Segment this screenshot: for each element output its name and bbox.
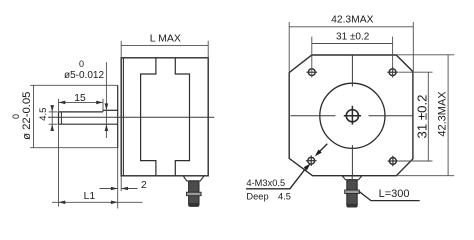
shaft bottom line — [59, 123, 118, 125]
dimension 42.3MAX right line — [447, 55, 449, 176]
svg-text:Deep: Deep — [246, 191, 268, 201]
dimension L MAX line — [121, 45, 208, 47]
dimension 42.3MAX right extension lines — [396, 54, 454, 56]
shaft end extension down (L1) — [58, 124, 60, 206]
dimension 42.3MAX top line — [289, 26, 413, 28]
dimension phi5 leader upper — [105, 62, 107, 138]
shaft end face — [58, 112, 60, 124]
mounting hole bottom-right — [390, 158, 397, 165]
cable ring (side view) — [187, 192, 202, 196]
body face extension line (to 2 dim) — [120, 176, 122, 191]
dimension 31 right extension lines — [399, 71, 433, 73]
front view flange outline — [289, 55, 413, 176]
dimension 15 line — [59, 101, 104, 103]
svg-text:4-M3x0.5: 4-M3x0.5 — [246, 178, 285, 188]
dimension phi22 extension lines — [30, 84, 118, 86]
svg-text:4.5: 4.5 — [278, 191, 291, 201]
dimension 31 top line — [312, 43, 393, 45]
svg-text:31 ±0.2: 31 ±0.2 — [336, 32, 370, 43]
dimension 42.3MAX top extension lines — [288, 22, 290, 73]
label 4-M3x0.5 leader — [246, 168, 306, 189]
svg-text:2: 2 — [141, 180, 147, 191]
label L=300 leader — [359, 191, 420, 200]
cable end cap (side view) — [189, 203, 199, 207]
vertical centerline lower — [351, 145, 353, 176]
shaft full-diameter top line — [103, 109, 118, 111]
svg-text:4.5: 4.5 — [38, 108, 49, 121]
pilot boss face — [117, 85, 119, 148]
horizontal centerline right — [369, 115, 414, 117]
svg-text:0: 0 — [79, 59, 84, 69]
dimension 4.5 line — [51, 106, 53, 131]
dimension L1 line — [52, 201, 143, 203]
cable boot trapezoid (front view) — [342, 176, 362, 180]
svg-text:ø5-0.012: ø5-0.012 — [64, 70, 104, 81]
shaft circle — [346, 110, 358, 122]
svg-text:15: 15 — [74, 93, 86, 104]
svg-text:L MAX: L MAX — [150, 32, 181, 44]
svg-text:L1: L1 — [84, 191, 96, 202]
dimension L MAX extension lines — [120, 41, 122, 57]
boss face extension line (to L1 dim) — [117, 148, 119, 209]
shaft end chamfer line — [60, 112, 62, 124]
cable boot trapezoid (side view) — [183, 176, 204, 181]
dimension 31 top extension lines — [311, 37, 313, 78]
dimension phi5 leader lower arrow — [105, 124, 109, 131]
cable ring (front view) — [345, 190, 360, 194]
center cross horizontal — [344, 115, 361, 117]
cable cylinder (front view) — [347, 180, 357, 207]
centerline through boot (front view) — [351, 176, 353, 180]
shaft flat end step — [102, 110, 104, 112]
dimension phi22 line — [33, 85, 35, 147]
axis centerline (side view) — [48, 116, 214, 118]
svg-text:31 ±0.2: 31 ±0.2 — [414, 95, 429, 139]
cable end cap (front view) — [347, 204, 357, 208]
shaft end extension up — [58, 99, 60, 112]
mounting hole top-left — [308, 69, 315, 76]
stator lamination outline right — [175, 58, 189, 176]
svg-text:L=300: L=300 — [379, 188, 410, 200]
svg-text:42.3MAX: 42.3MAX — [437, 91, 449, 137]
label 4-M3x0.5 upper leader segment — [318, 144, 328, 154]
svg-text:42.3MAX: 42.3MAX — [331, 14, 373, 25]
center cross vertical — [351, 106, 353, 125]
mounting hole top-right — [389, 69, 396, 76]
mounting hole bottom-left — [308, 157, 315, 164]
svg-text:ø 22-0.05: ø 22-0.05 — [21, 92, 33, 140]
dimension 2 leader left — [100, 188, 118, 190]
dimension 31 right line — [427, 72, 429, 161]
dimension 15 extension right — [102, 99, 104, 110]
front end-cap line — [122, 58, 124, 176]
dimension 2 leader right — [121, 188, 137, 190]
pilot circle — [320, 83, 385, 148]
horizontal centerline left — [291, 115, 336, 117]
motor body outline (side view) — [121, 58, 208, 176]
cable cylinder (side view) — [189, 181, 199, 206]
stator lamination outline left — [141, 58, 156, 176]
svg-text:0: 0 — [11, 114, 21, 119]
vertical centerline upper — [351, 55, 353, 86]
shaft flat line — [59, 111, 104, 113]
dimension 4.5 extension lines — [49, 111, 58, 113]
